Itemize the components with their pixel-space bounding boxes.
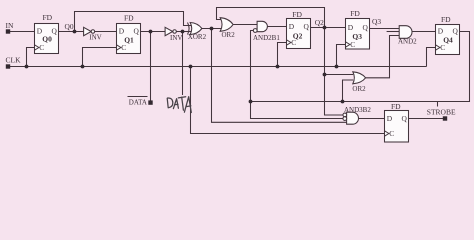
svg-text:Q: Q xyxy=(363,23,369,32)
wire OR2a out to AND2B1 top input xyxy=(233,24,257,26)
wire INV1 out to Q1.D xyxy=(94,31,116,33)
gate OR2 first xyxy=(220,18,233,32)
svg-text:CLK: CLK xyxy=(6,55,22,64)
wire OR2a top input from top feedback xyxy=(217,8,325,28)
svg-text:C: C xyxy=(39,43,44,52)
wire Q3.Q to AND2 top input xyxy=(370,28,400,30)
junction node Q2 out xyxy=(323,26,327,30)
svg-text:FD: FD xyxy=(391,102,401,111)
svg-text:C: C xyxy=(350,40,355,49)
junction node INV2 out xyxy=(181,30,185,34)
pin DATA xyxy=(148,100,152,104)
svg-text:FD: FD xyxy=(292,10,302,19)
svg-text:Q0: Q0 xyxy=(42,35,52,44)
wire AND2 out to Q4.D xyxy=(412,31,436,33)
junction feedback to AND2B1 xyxy=(249,100,253,104)
gate AND2 xyxy=(399,26,412,39)
wire OR2b top input tap xyxy=(325,74,354,76)
wire strobe FF clock line xyxy=(191,67,385,134)
svg-text:OR2: OR2 xyxy=(352,85,366,93)
gate XOR2 xyxy=(190,23,202,35)
svg-text:D: D xyxy=(387,114,393,123)
junction node XOR2 out xyxy=(210,27,214,31)
svg-text:OR2: OR2 xyxy=(222,31,236,39)
flip-flop FD strobe xyxy=(385,111,409,143)
wire Q4 clock riser xyxy=(427,48,436,67)
svg-text:DATA: DATA xyxy=(129,99,147,107)
svg-text:Q4: Q4 xyxy=(443,36,453,45)
wire AND2B1 bubble input drop xyxy=(251,31,254,102)
pin CLK xyxy=(6,64,10,68)
gate AND3B2 xyxy=(347,112,359,124)
svg-text:FD: FD xyxy=(441,15,451,24)
wire Q1 clock riser xyxy=(83,48,117,67)
flip-flop FD Q4 xyxy=(436,25,460,55)
svg-text:XOR2: XOR2 xyxy=(188,33,207,41)
svg-text:FD: FD xyxy=(124,13,134,22)
svg-text:Q2: Q2 xyxy=(293,32,303,41)
wire OR2b bottom input riser xyxy=(343,80,354,102)
wire Q2 clock riser xyxy=(278,43,287,67)
junction node Q0 out xyxy=(73,30,77,34)
svg-text:AND3B2: AND3B2 xyxy=(344,106,371,114)
gate AND2B1 xyxy=(257,21,267,31)
junction Q2 drop to OR2b xyxy=(323,73,327,77)
wire Q0 clock riser xyxy=(27,48,35,67)
junction CLK to Q1 xyxy=(81,65,85,69)
wire CLK rail xyxy=(10,66,427,68)
svg-text:D: D xyxy=(289,22,295,31)
svg-text:Q: Q xyxy=(52,27,58,36)
wire AND2B1 out to Q2.D xyxy=(267,26,286,28)
wire INV2 out drop to handwritten DATA xyxy=(182,32,184,96)
junction feedback to OR2b xyxy=(341,100,345,104)
junction CLK to strobe FF xyxy=(189,65,193,69)
DATA label overline xyxy=(128,96,148,98)
wire Q1.Q drop to DATA pin xyxy=(150,32,152,101)
wire Q3 clock riser xyxy=(337,45,346,67)
junction CLK to Q0 xyxy=(25,65,29,69)
wire Q1.Q to INV2 xyxy=(141,31,166,33)
wire AND2 middle stub xyxy=(387,31,400,33)
svg-text:Q: Q xyxy=(402,114,408,123)
clock input triangles xyxy=(35,40,440,136)
svg-text:Q0: Q0 xyxy=(65,22,74,31)
wire XOR2 out to OR2a bottom input xyxy=(202,28,223,30)
svg-text:D: D xyxy=(438,27,444,36)
pin STROBE xyxy=(443,116,447,120)
wire XOR2 out drop to AND3B2 bottom input xyxy=(212,29,347,123)
svg-text:Q3: Q3 xyxy=(372,17,381,26)
gate OR2 second xyxy=(353,72,366,84)
svg-text:FD: FD xyxy=(350,9,360,18)
wire INV2 out to XOR2 input xyxy=(176,31,191,33)
wire Q2.Q to Q3.D xyxy=(311,27,346,29)
svg-text:STROBE: STROBE xyxy=(427,107,456,116)
wire Q4.Q feedback down and left xyxy=(251,32,470,102)
wire Q0.Q to INV1 xyxy=(59,31,84,33)
svg-text:Q2: Q2 xyxy=(315,18,324,27)
flip-flop FD Q2 xyxy=(287,19,311,49)
junction node Q1 out DATA xyxy=(149,30,153,34)
svg-text:Q3: Q3 xyxy=(352,32,362,41)
svg-text:D: D xyxy=(119,27,125,36)
svg-text:Q: Q xyxy=(134,27,140,36)
pin IN xyxy=(6,29,10,33)
inverter INV2 xyxy=(165,27,173,35)
svg-text:Q: Q xyxy=(304,22,310,31)
svg-text:C: C xyxy=(389,129,394,138)
wire AND3B2 bubble2 input xyxy=(251,102,344,119)
svg-text:INV: INV xyxy=(170,34,182,42)
svg-text:INV: INV xyxy=(89,34,101,42)
svg-text:AND2B1: AND2B1 xyxy=(253,34,280,42)
wire node Q2 drop to AND3B2 bubble1 xyxy=(325,28,344,116)
svg-text:IN: IN xyxy=(6,21,14,30)
wire strobe FF Q to STROBE pin xyxy=(409,118,444,120)
svg-text:FD: FD xyxy=(43,13,53,22)
inverter INV1 xyxy=(84,27,92,35)
junction CLK to Q2 xyxy=(276,65,280,69)
wire OR2b out up to AND2 bottom input xyxy=(366,36,400,78)
wire IN to Q0.D xyxy=(10,31,35,33)
wire node Q0 feedback to XOR2 top input xyxy=(75,12,192,32)
svg-text:Q1: Q1 xyxy=(124,35,134,44)
svg-text:AND2: AND2 xyxy=(398,37,417,45)
junction CLK to Q3 xyxy=(335,65,339,69)
flip-flop FD Q1 xyxy=(117,24,141,54)
svg-text:D: D xyxy=(348,23,354,32)
wire AND3B2 out to strobe FF D xyxy=(359,118,385,120)
wire stub down to STROBE label xyxy=(437,102,439,107)
handwritten DATA annotation xyxy=(167,97,191,113)
svg-text:Q: Q xyxy=(453,27,459,36)
flip-flop FD Q3 xyxy=(346,19,370,50)
flip-flop FD Q0 xyxy=(35,24,59,54)
